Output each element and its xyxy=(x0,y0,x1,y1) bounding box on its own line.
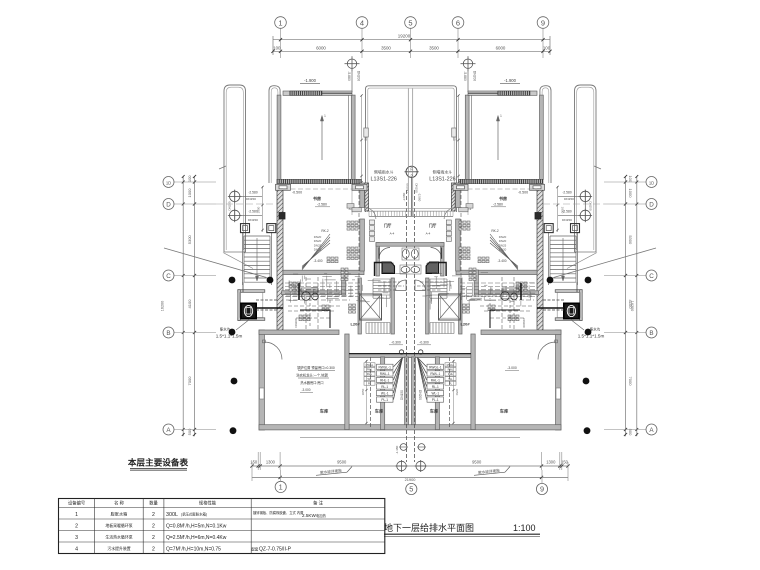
svg-text:4100: 4100 xyxy=(187,299,192,309)
svg-text:镀锌钢板、防腐橡胶囊、立式 内置: 镀锌钢板、防腐橡胶囊、立式 内置 xyxy=(253,510,304,515)
svg-text:设备编号: 设备编号 xyxy=(68,500,85,507)
svg-text:5: 5 xyxy=(409,485,413,494)
center pipe risers vertical xyxy=(395,190,422,462)
svg-text:300L: 300L xyxy=(166,512,178,518)
svg-text:集水坑: 集水坑 xyxy=(590,327,601,332)
section mark center xyxy=(402,166,421,216)
grid bubble axis 5 top xyxy=(405,17,417,29)
garage inner dim left xyxy=(361,360,368,424)
svg-text:-1.900: -1.900 xyxy=(504,78,517,83)
svg-text:RHL-1: RHL-1 xyxy=(431,378,440,382)
grid bubble axis D left xyxy=(163,199,174,210)
svg-text:车库: 车库 xyxy=(375,408,384,415)
door swing wc left xyxy=(379,248,390,259)
svg-text:DN20: DN20 xyxy=(499,248,507,252)
center wall top edge dark xyxy=(349,353,471,355)
svg-text:数量: 数量 xyxy=(149,500,158,507)
door swing upper right xyxy=(444,208,456,220)
wc supply pipes right xyxy=(417,282,442,290)
courtyard right top hatch band xyxy=(468,91,537,95)
svg-text:DN150: DN150 xyxy=(589,202,593,211)
courtyard left bottom hatch band xyxy=(277,179,362,183)
garage inner dim right xyxy=(452,360,459,424)
retaining slope cut line left xyxy=(164,248,267,278)
svg-text:9: 9 xyxy=(541,18,545,27)
courtyard left level label xyxy=(300,78,320,83)
standard detail note right xyxy=(429,170,455,183)
right dimension column xyxy=(604,175,646,436)
garage door arc left xyxy=(265,342,283,360)
svg-text:3500: 3500 xyxy=(381,45,391,50)
svg-text:-5.880: -5.880 xyxy=(347,71,351,81)
svg-text:1000: 1000 xyxy=(187,188,192,198)
trap circle b xyxy=(417,444,426,451)
svg-text:D: D xyxy=(166,201,171,208)
wc door leaf left xyxy=(378,248,380,259)
equipment table title xyxy=(128,457,189,471)
svg-text:3050: 3050 xyxy=(455,389,459,396)
top dimension lines xyxy=(271,29,551,59)
svg-text:门厅: 门厅 xyxy=(429,223,437,228)
svg-text:地板采暖循环泵: 地板采暖循环泵 xyxy=(105,523,132,528)
courtyard right slope arrow xyxy=(496,114,502,160)
svg-text:DN100: DN100 xyxy=(522,319,526,328)
grid bubble axis 1D left xyxy=(163,177,174,188)
riser labels left xyxy=(314,235,322,252)
center twin wall b xyxy=(412,357,416,425)
svg-text:1300: 1300 xyxy=(546,459,556,464)
svg-text:5300: 5300 xyxy=(187,235,192,245)
svg-text:D: D xyxy=(649,201,654,208)
svg-text:RL-1: RL-1 xyxy=(432,385,439,389)
stairwell walls right xyxy=(426,278,462,334)
svg-text:A-4: A-4 xyxy=(426,232,431,236)
svg-text:/h,H=10m,N=0.75: /h,H=10m,N=0.75 xyxy=(182,547,222,553)
inner dim line left room xyxy=(257,186,264,232)
svg-text:A-4: A-4 xyxy=(390,232,395,236)
svg-text:本层主要设备表: 本层主要设备表 xyxy=(128,457,189,468)
courtyard left top hatch band xyxy=(283,91,352,95)
upper room right wall left side xyxy=(360,183,365,271)
equipment table row 4 xyxy=(75,546,291,553)
pipe riser dot 233x430.7 xyxy=(230,427,237,434)
riser labels right xyxy=(499,235,507,252)
svg-text:-0.300: -0.300 xyxy=(419,341,429,345)
bold pipe right mid xyxy=(520,283,522,300)
corridor door arc right xyxy=(415,280,426,291)
svg-text:19200: 19200 xyxy=(398,34,411,39)
svg-text:C: C xyxy=(166,273,171,280)
mid band riser boxes right xyxy=(508,315,519,321)
svg-text:1800: 1800 xyxy=(257,206,261,213)
svg-text:WL-1: WL-1 xyxy=(381,392,389,396)
svg-text:RWL: RWL xyxy=(367,368,373,372)
svg-text:-3.000: -3.000 xyxy=(301,388,310,392)
svg-text:5: 5 xyxy=(408,18,412,27)
grid bubble axis 9 bottom xyxy=(536,470,547,495)
bottom block apron line xyxy=(300,437,520,439)
courtyard right inner dim line xyxy=(453,94,460,183)
sump pit label right xyxy=(570,319,604,339)
window left outer wall xyxy=(260,388,265,399)
mid band clutter left2 xyxy=(288,298,340,330)
svg-text:DN150: DN150 xyxy=(246,197,256,201)
corridor pipes right xyxy=(460,283,535,297)
axis marker circle bottom center b xyxy=(415,460,427,472)
svg-text:2: 2 xyxy=(152,535,155,541)
sump pit label left xyxy=(216,319,250,339)
equipment table header xyxy=(68,500,324,507)
svg-text:1000: 1000 xyxy=(628,189,633,199)
svg-text:洗衣机龙头:一个,地漏: 洗衣机龙头:一个,地漏 xyxy=(296,373,328,378)
wc door leaf right xyxy=(441,248,443,259)
svg-text:RWGL-1: RWGL-1 xyxy=(379,365,392,369)
equipment table row 2 xyxy=(75,523,227,530)
bottom dimension lines xyxy=(250,452,569,482)
svg-text:RHL: RHL xyxy=(448,372,454,376)
sump pit room right xyxy=(555,290,582,321)
axis marker circle bottom center a xyxy=(396,460,408,472)
svg-text:车库: 车库 xyxy=(500,408,509,415)
svg-text:书房: 书房 xyxy=(499,195,507,201)
cleanout symbols left xyxy=(228,190,262,223)
svg-text:1: 1 xyxy=(500,114,502,118)
small cluster right mid2 xyxy=(488,305,495,311)
svg-text:DN150: DN150 xyxy=(564,197,574,201)
svg-text:/h,H=5m,N=0.1Kw: /h,H=5m,N=0.1Kw xyxy=(186,524,227,530)
rain drain symbol left DN200 xyxy=(345,56,361,215)
garage door arc right xyxy=(538,342,556,360)
svg-text:RWL-1: RWL-1 xyxy=(380,372,390,376)
svg-text:RWL: RWL xyxy=(448,368,454,372)
svg-text:-2.580: -2.580 xyxy=(493,203,503,207)
grid bubble axis C right xyxy=(646,270,657,281)
svg-text:B: B xyxy=(649,330,653,337)
svg-text:2.5KW: 2.5KW xyxy=(302,513,316,518)
grid D extension left xyxy=(216,203,277,205)
core riser cluster right xyxy=(463,304,470,313)
grid bubble axis B right xyxy=(646,327,657,338)
svg-text:DN100: DN100 xyxy=(294,318,298,327)
svg-text:PL: PL xyxy=(368,381,372,385)
svg-text:4: 4 xyxy=(360,18,364,27)
courtyard left inner dim line xyxy=(360,94,367,183)
cleanout connector left xyxy=(234,190,236,222)
courtyard wall base molding left xyxy=(347,204,361,212)
svg-text:膨胀水箱: 膨胀水箱 xyxy=(111,511,128,518)
svg-text:6: 6 xyxy=(456,18,460,27)
upper room label right xyxy=(491,191,528,207)
bottom block outer walls xyxy=(259,330,561,430)
svg-text:门厅: 门厅 xyxy=(384,223,392,228)
floor drain on wall a xyxy=(399,350,403,354)
junction box right xyxy=(535,213,541,220)
window right outer wall xyxy=(556,388,561,399)
svg-text:2: 2 xyxy=(152,524,155,530)
external stair left xyxy=(243,232,272,285)
door swing wc right xyxy=(431,248,442,259)
mid corridor wall right xyxy=(475,291,538,295)
svg-text:9500: 9500 xyxy=(472,459,482,464)
catch basin a right xyxy=(571,224,580,233)
svg-text:DN150: DN150 xyxy=(405,183,409,193)
svg-text:B: B xyxy=(166,330,170,337)
svg-text:RL-1: RL-1 xyxy=(381,385,388,389)
svg-text:100: 100 xyxy=(543,45,551,50)
svg-text:1800: 1800 xyxy=(561,207,565,214)
svg-text:车库: 车库 xyxy=(320,408,329,415)
courtyard left side walls xyxy=(277,95,355,179)
boundary wall strip inner right xyxy=(540,86,551,183)
boiler pumps left xyxy=(301,288,318,300)
svg-text:(承压式膨胀水箱): (承压式膨胀水箱) xyxy=(181,512,207,517)
sump pit pipes right xyxy=(543,282,577,310)
svg-text:-0.300: -0.300 xyxy=(391,341,401,345)
mid corridor wall left xyxy=(282,291,345,295)
svg-text:-3.400: -3.400 xyxy=(497,259,506,263)
grid bubble axis A left xyxy=(163,424,174,435)
svg-text:L20#: L20# xyxy=(460,322,470,327)
north wall inner line left xyxy=(283,188,360,190)
svg-text:WL-1: WL-1 xyxy=(431,392,439,396)
vertical pipe left xyxy=(358,183,360,300)
stair flight lower left xyxy=(366,323,390,334)
core riser cluster left xyxy=(349,304,356,313)
hall closet boxes left xyxy=(370,220,375,241)
porch wall lower right xyxy=(451,183,455,211)
svg-text:侧墙雨水斗: 侧墙雨水斗 xyxy=(433,170,453,175)
svg-text:16200: 16200 xyxy=(161,301,165,312)
svg-text:7000: 7000 xyxy=(187,376,192,386)
svg-text:L13S1-226: L13S1-226 xyxy=(371,177,397,183)
mid band extra pipes right xyxy=(464,277,534,330)
svg-text:21900: 21900 xyxy=(405,477,417,482)
pipe riser dot 270x280 xyxy=(267,277,274,284)
svg-text:DN150: DN150 xyxy=(248,218,258,222)
svg-text:书房: 书房 xyxy=(313,195,321,201)
grid bubble axis 6 top xyxy=(452,17,464,29)
pipe riser dot 234x381 xyxy=(231,378,238,385)
pipe riser dot 586x381 xyxy=(583,378,590,385)
grid bubble axis 1 bottom xyxy=(275,470,286,493)
svg-text:QZ-7-0.75/II-P: QZ-7-0.75/II-P xyxy=(259,547,292,553)
svg-text:1.5*1.1*1.5m: 1.5*1.1*1.5m xyxy=(216,334,243,339)
svg-text:Q=2.5M: Q=2.5M xyxy=(166,535,184,541)
pipe riser dot 232x332 xyxy=(229,329,236,336)
svg-text:1: 1 xyxy=(75,512,78,518)
left dimension column xyxy=(161,175,217,437)
svg-text:L20#: L20# xyxy=(350,322,360,327)
central pipe clutter xyxy=(289,273,535,310)
pipe riser dot 587x430.7 xyxy=(584,427,591,434)
grid bubble axis 9 top xyxy=(537,17,549,29)
entrance porch outline xyxy=(366,86,457,212)
courtyard wall base molding right xyxy=(459,204,473,212)
retaining wall right hatched xyxy=(537,184,543,332)
svg-text:150: 150 xyxy=(561,459,569,464)
svg-text:1: 1 xyxy=(279,483,283,492)
svg-text:污水提升装置: 污水提升装置 xyxy=(107,546,130,551)
sump pit room left xyxy=(238,290,265,321)
svg-text:地下一层给排水平面图: 地下一层给排水平面图 xyxy=(384,522,474,533)
garage side label stack right xyxy=(445,363,456,386)
svg-text:1300: 1300 xyxy=(266,459,276,464)
svg-text:RK-2: RK-2 xyxy=(321,229,328,233)
pipe fan upper left xyxy=(302,229,330,270)
mid band extra pipes left xyxy=(286,277,356,330)
boundary wall strip inner left xyxy=(269,86,280,183)
courtyard right bottom hatch band xyxy=(459,179,544,183)
svg-text:1:100: 1:100 xyxy=(513,523,536,533)
boiler boxes left xyxy=(341,268,348,281)
bottom room wall right xyxy=(435,357,439,430)
catch basin a left xyxy=(241,224,250,233)
svg-text:-1.380: -1.380 xyxy=(395,445,399,454)
bold pipe left mid xyxy=(298,283,300,300)
elevator shaft right xyxy=(439,294,461,320)
svg-text:-0.500: -0.500 xyxy=(292,191,302,195)
grid bubble axis 1D right xyxy=(646,177,657,188)
svg-text:配套: 配套 xyxy=(252,546,259,551)
boiler pumps right xyxy=(501,288,519,300)
courtyard right level label xyxy=(500,78,520,83)
mid band clutter right2 xyxy=(480,298,532,330)
standard detail note left xyxy=(371,170,397,183)
shower dark right xyxy=(426,262,439,274)
external stair right xyxy=(549,232,578,285)
junction box left xyxy=(279,213,285,220)
svg-text:DN200: DN200 xyxy=(473,71,477,81)
upper wall step right xyxy=(474,270,478,295)
svg-text:WL: WL xyxy=(368,377,372,381)
mid band riser boxes left xyxy=(299,315,310,321)
fixture cluster left d xyxy=(289,282,300,291)
svg-text:车库: 车库 xyxy=(430,408,439,415)
svg-text:RWGL-1: RWGL-1 xyxy=(429,365,442,369)
garage pipe dashed left xyxy=(370,357,372,428)
courtyard corner pier right a xyxy=(530,184,545,190)
grid D extension right xyxy=(543,203,604,205)
svg-text:侧墙雨水斗: 侧墙雨水斗 xyxy=(374,170,394,175)
boiler bold pipe right xyxy=(490,310,520,328)
level note center bottom rooms xyxy=(389,341,431,345)
pipe fan bottom left xyxy=(377,358,403,403)
garage dividing wall right xyxy=(471,334,475,430)
floor drain on wall b xyxy=(419,350,423,354)
fixture cluster wall right b xyxy=(459,247,470,260)
courtyard corner pier left a xyxy=(276,184,291,190)
grid bubble axis C left xyxy=(163,270,174,281)
equipment table grid xyxy=(59,499,385,554)
svg-text:2: 2 xyxy=(152,512,155,518)
porch sill left xyxy=(364,128,369,137)
svg-text:RWL-1: RWL-1 xyxy=(430,372,440,376)
svg-text:1.5*1.1*1.5m: 1.5*1.1*1.5m xyxy=(578,334,605,339)
svg-text:RK-2: RK-2 xyxy=(491,229,498,233)
svg-text:-2.580: -2.580 xyxy=(248,191,258,195)
bold pipe pit to wall right xyxy=(537,307,564,309)
catch basin b left xyxy=(267,224,276,233)
fixture cluster left c xyxy=(327,257,338,263)
svg-text:-2.580: -2.580 xyxy=(317,203,327,207)
sump pit pipes left xyxy=(243,282,277,310)
grid bubble axis 5 bottom xyxy=(406,483,417,494)
north wall inner line right xyxy=(460,188,537,190)
trap circle a xyxy=(399,444,408,451)
svg-text:6000: 6000 xyxy=(316,45,326,50)
hall closet boxes right xyxy=(446,220,451,241)
pipe riser dot 232x280 xyxy=(229,277,236,284)
svg-text:500: 500 xyxy=(187,428,192,435)
svg-text:7000: 7000 xyxy=(628,377,633,387)
grid bubble axis 4 top xyxy=(356,17,368,29)
svg-text:2: 2 xyxy=(75,524,78,530)
sump pit tank right xyxy=(564,303,579,318)
svg-text:备 注: 备 注 xyxy=(313,500,323,507)
svg-text:RHL: RHL xyxy=(367,372,373,376)
boiler boxes right xyxy=(469,268,476,281)
boiler bold pipe left xyxy=(300,310,330,328)
retaining slope cut line right xyxy=(554,248,657,278)
svg-text:2: 2 xyxy=(152,547,155,553)
grid bubble axis B left xyxy=(163,327,174,338)
svg-text:1D: 1D xyxy=(649,180,654,185)
bold pipe pit to wall left xyxy=(256,307,283,309)
upper room left wall right side xyxy=(456,183,461,271)
stair flight upper left xyxy=(373,279,390,298)
svg-text:生活热水循环泵: 生活热水循环泵 xyxy=(105,535,132,540)
retaining slope cut line right short xyxy=(567,253,597,269)
svg-text:5300: 5300 xyxy=(628,235,633,245)
svg-text:DN20: DN20 xyxy=(314,248,322,252)
wc room fixtures xyxy=(400,248,421,274)
courtyard left slope arrow xyxy=(320,114,326,160)
grid bubble axis A right xyxy=(646,424,657,435)
door swing upper left xyxy=(364,208,376,220)
equipment table row 3 xyxy=(75,534,227,541)
svg-text:DN200: DN200 xyxy=(418,390,422,400)
svg-text:1D: 1D xyxy=(166,180,171,185)
stairwell walls left xyxy=(358,278,394,334)
svg-text:-3.080: -3.080 xyxy=(402,192,406,201)
pipe riser dot 588x332 xyxy=(585,329,592,336)
boundary wall strip outer right xyxy=(575,85,602,252)
fixture cluster wall left b xyxy=(347,247,358,260)
svg-text:9500: 9500 xyxy=(337,459,347,464)
sump pit tank left xyxy=(241,303,256,318)
svg-text:L13S1-226: L13S1-226 xyxy=(429,177,455,183)
svg-text:Q=7M: Q=7M xyxy=(166,547,180,553)
grid bubble axis D right xyxy=(646,199,657,210)
fixture cluster right c xyxy=(478,257,489,263)
svg-text:规格性能: 规格性能 xyxy=(199,500,217,507)
bottom room wall left xyxy=(381,357,385,430)
svg-text:C: C xyxy=(649,273,654,280)
upper wall step left xyxy=(342,270,346,295)
svg-text:1: 1 xyxy=(324,114,326,118)
garage side label stack left xyxy=(364,363,375,386)
pipe riser dot 550x280 xyxy=(547,277,554,284)
svg-text:4: 4 xyxy=(75,547,78,553)
shower dark left xyxy=(382,262,395,274)
svg-text:100: 100 xyxy=(187,175,192,182)
svg-text:3: 3 xyxy=(75,535,78,541)
upper rooms horizontal wall left xyxy=(283,270,364,274)
svg-text:名 称: 名 称 xyxy=(114,500,124,507)
corridor door arc left xyxy=(396,280,407,291)
fixture cluster wall left a xyxy=(347,221,358,230)
drawing title xyxy=(384,522,540,537)
